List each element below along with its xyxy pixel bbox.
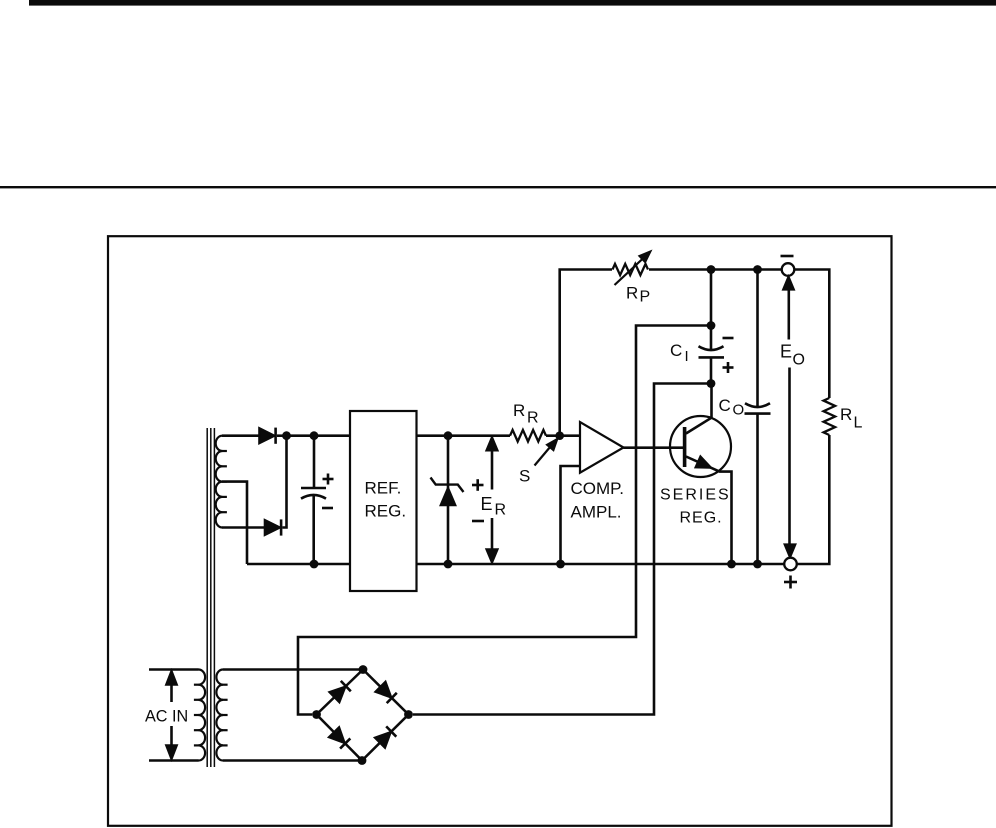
node top rail C_I tap: [707, 265, 716, 274]
wire top rail down to C_I: [710, 270, 713, 352]
zener diode VR1 triangle: [441, 489, 455, 506]
node bridge left: [312, 710, 321, 719]
E_O arrowhead up: [784, 277, 794, 289]
R_P arrowhead: [640, 252, 650, 262]
S pointer line: [535, 447, 551, 466]
wire upper secondary top lead: [222, 434, 260, 437]
transistor Q1 emitter: [686, 457, 732, 565]
node top rail C_O tap: [753, 265, 762, 274]
node zener bottom: [444, 560, 453, 569]
S pointer arrowhead: [548, 440, 557, 450]
transistor Q1 collector: [686, 384, 712, 434]
wire primary top lead: [149, 668, 199, 671]
capacitor C1 (filter) leads: [312, 436, 315, 564]
node bridge bottom: [358, 756, 367, 765]
wire sense node up to top rail: [560, 270, 612, 436]
svg-text:REG.: REG.: [365, 502, 407, 521]
bridge diode CR1 (left-top): [330, 681, 351, 702]
bridge edge top-right: [363, 670, 409, 715]
resistor R_L: [824, 398, 836, 435]
node bridge top: [359, 665, 368, 674]
zener diode VR1 lead: [447, 436, 450, 564]
label minus terminal: [781, 255, 794, 258]
wire C_I bottom lead: [710, 357, 713, 383]
node bridge right: [404, 710, 413, 719]
label C_I minus: [723, 337, 734, 340]
zener diode VR1 bar: [431, 478, 464, 493]
terminal negative: [782, 263, 795, 276]
svg-text:R: R: [626, 284, 638, 303]
AC IN arrow line: [170, 680, 173, 750]
node C_I top junction: [707, 321, 716, 330]
bridge edge bottom-left: [317, 715, 363, 761]
wire secondary to bridge bottom: [223, 759, 362, 762]
svg-text:AMPL.: AMPL.: [571, 503, 622, 522]
wire primary bottom lead: [149, 759, 199, 762]
node C_O rail junction: [753, 560, 762, 569]
diode D1 (upper rectifier): [260, 429, 275, 443]
wire C_I top to bridge negative: [298, 326, 711, 715]
wire D2 to D1 junction: [283, 436, 287, 528]
svg-text:E: E: [780, 342, 792, 362]
svg-text:COMP.: COMP.: [571, 479, 625, 498]
AC IN arrowhead up: [167, 672, 177, 685]
node emitter rail junction: [727, 560, 736, 569]
E_R arrowhead up: [487, 438, 497, 451]
wire C_O bottom lead: [756, 414, 759, 564]
transformer lower secondary winding: [216, 670, 223, 761]
svg-text:R: R: [513, 401, 525, 420]
svg-text:P: P: [640, 289, 651, 306]
capacitor C1 plates: [301, 488, 326, 499]
transistor Q1 base bar: [683, 427, 687, 467]
svg-text:O: O: [793, 352, 805, 369]
capacitor C_I plates: [699, 346, 725, 357]
E_R arrowhead down: [487, 550, 497, 563]
node S sense junction: [555, 431, 564, 440]
wire upper secondary center tap: [222, 482, 247, 564]
E_O arrowhead down: [785, 545, 795, 557]
svg-text:R: R: [840, 405, 852, 424]
wire upper secondary bottom lead: [222, 526, 265, 529]
label E_R plus: [472, 479, 484, 491]
transformer upper secondary winding: [216, 436, 223, 528]
wire bottom rail left: [247, 563, 350, 566]
AC IN arrowhead down: [167, 746, 177, 759]
node filter cap top: [310, 431, 319, 440]
R_P arrow line: [615, 258, 645, 286]
label C_I plus: [723, 362, 734, 373]
svg-text:C: C: [670, 341, 682, 360]
transistor Q1 emitter arrowhead: [696, 457, 711, 468]
bridge diode CR3 (left-bottom): [329, 728, 350, 749]
diode D2 (lower rectifier): [265, 520, 280, 534]
label C1 plus: [323, 474, 334, 485]
wire C_I bottom to bridge positive: [413, 384, 711, 715]
wire op-amp lower input: [561, 466, 581, 564]
wire REF REG to R_R: [417, 434, 511, 437]
svg-text:S: S: [519, 467, 530, 486]
E_O arrow line upper: [787, 283, 790, 340]
bridge diode CR4 (bottom-right): [375, 726, 396, 747]
node D1-D2 junction: [282, 431, 291, 440]
node op-amp input rail junction: [556, 560, 565, 569]
svg-text:L: L: [854, 415, 863, 432]
wire D1 to junction: [277, 434, 290, 437]
wire top rail: [649, 268, 782, 271]
wire R_R lead right: [546, 434, 580, 437]
E_R arrow line: [491, 443, 494, 556]
label E_R minus: [472, 520, 484, 523]
bridge diode CR2 (top-right): [376, 682, 397, 703]
capacitor C_O plates: [745, 403, 771, 413]
transformer core: [207, 428, 214, 767]
E_O arrow line lower: [788, 368, 791, 547]
svg-text:C: C: [719, 396, 731, 415]
bridge edge bottom-right: [362, 715, 409, 761]
svg-text:R: R: [527, 410, 539, 427]
wire R_L down to rail: [797, 435, 830, 564]
svg-text:I: I: [685, 348, 689, 365]
node filter cap bottom: [310, 560, 319, 569]
wire terminal to right branch: [794, 270, 829, 399]
wire C_O top lead: [756, 270, 759, 409]
transistor Q1 circle: [670, 416, 731, 477]
wire secondary to bridge top: [223, 668, 363, 671]
svg-text:O: O: [733, 402, 745, 419]
resistor R_R: [510, 430, 546, 442]
label C1 minus: [322, 507, 333, 510]
svg-text:SERIES: SERIES: [660, 487, 731, 504]
label plus terminal: [784, 576, 797, 589]
wire bottom rail right: [417, 563, 785, 566]
svg-text:AC IN: AC IN: [145, 708, 188, 726]
svg-text:REF.: REF.: [365, 479, 402, 498]
resistor R_P (variable): [613, 264, 649, 275]
transformer primary winding: [199, 670, 206, 761]
svg-text:REG.: REG.: [680, 510, 723, 527]
terminal positive: [784, 558, 797, 571]
wire D1 junction to REF REG: [287, 434, 351, 437]
svg-text:E: E: [481, 494, 493, 514]
svg-text:R: R: [495, 502, 507, 519]
bridge edge top-left: [317, 670, 364, 715]
node zener top: [444, 431, 453, 440]
wire op-amp output to base: [624, 446, 684, 449]
op-amp U1 triangle: [580, 422, 624, 473]
block REF REG: [350, 411, 417, 591]
node C_I bottom junction: [707, 379, 716, 388]
